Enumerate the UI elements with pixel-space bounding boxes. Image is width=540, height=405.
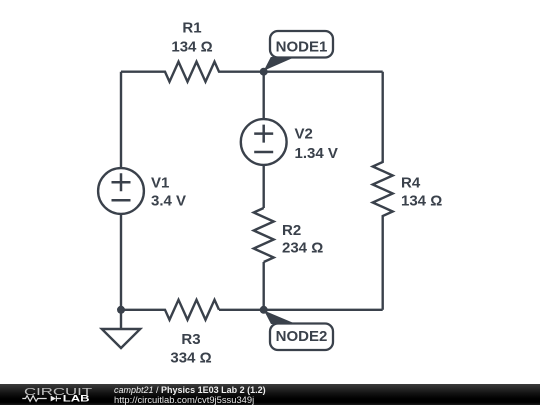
svg-text:3.4 V: 3.4 V [151, 192, 186, 209]
svg-text:V1: V1 [151, 175, 169, 192]
svg-text:334 Ω: 334 Ω [170, 350, 211, 367]
svg-text:NODE2: NODE2 [276, 328, 328, 345]
svg-text:234 Ω: 234 Ω [282, 240, 323, 257]
svg-text:134 Ω: 134 Ω [171, 39, 212, 56]
svg-text:134 Ω: 134 Ω [401, 193, 442, 210]
svg-text:R2: R2 [282, 222, 301, 239]
svg-text:1.34 V: 1.34 V [295, 145, 338, 162]
svg-text:R1: R1 [182, 20, 201, 37]
svg-text:R3: R3 [181, 331, 200, 348]
svg-text:NODE1: NODE1 [276, 39, 328, 56]
svg-text:V2: V2 [295, 126, 313, 143]
svg-text:R4: R4 [401, 175, 421, 192]
svg-text:LAB: LAB [63, 394, 90, 404]
